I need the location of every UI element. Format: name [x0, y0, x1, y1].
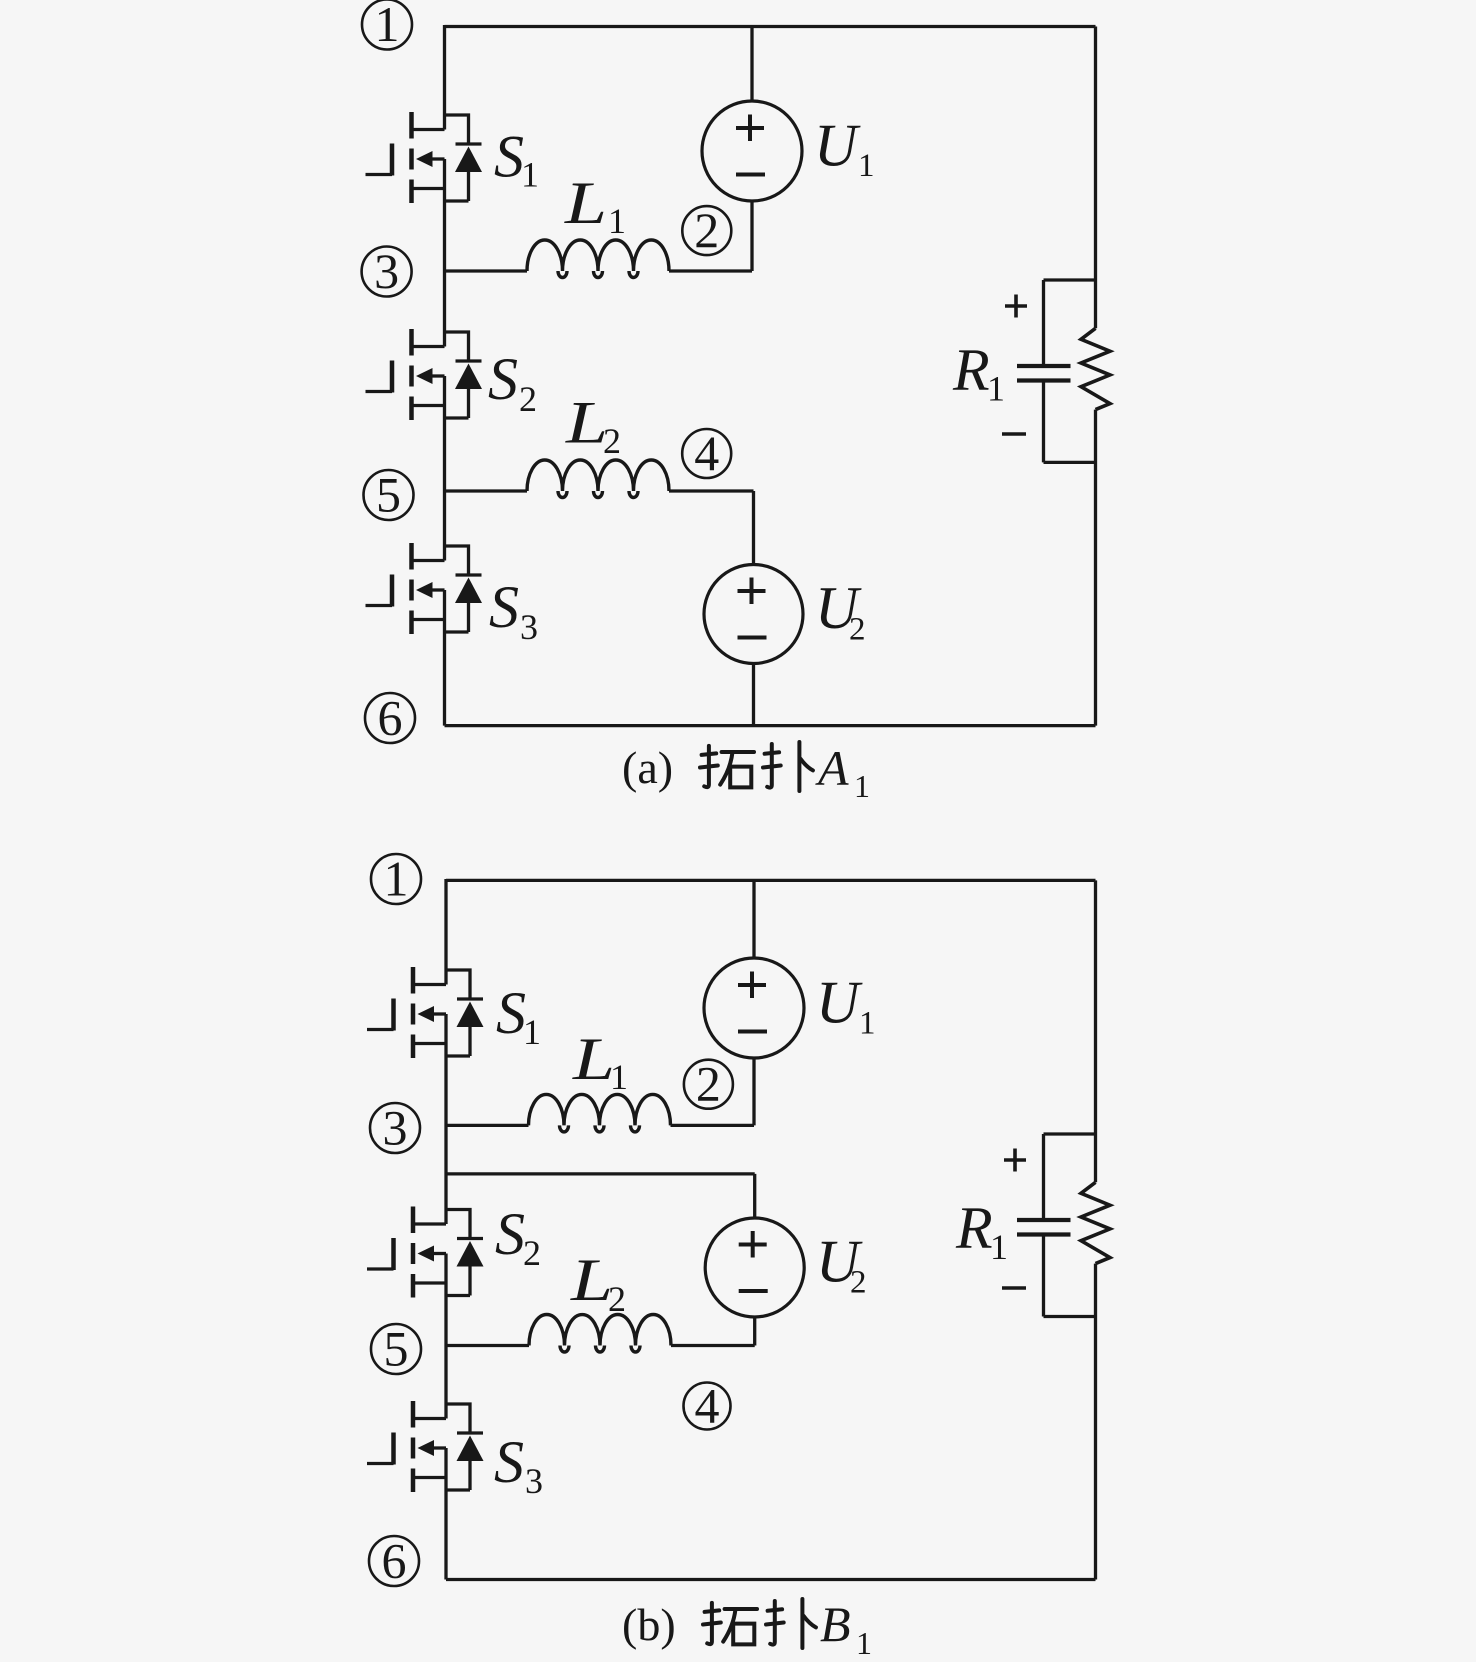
- label S3b: [494, 1429, 543, 1501]
- svg-text:2: 2: [523, 1233, 541, 1273]
- svg-text:6: 6: [378, 690, 403, 746]
- wire right rail upper (b): [1094, 880, 1097, 1182]
- label L1: [564, 170, 626, 241]
- caption (b) glyph 扑: [766, 1599, 816, 1648]
- svg-text:3: 3: [374, 243, 399, 299]
- wire left rail segment S2-S3 (a): [443, 376, 446, 561]
- inductor L2: [527, 460, 669, 498]
- label U1b: [816, 970, 876, 1042]
- svg-text:U: U: [816, 970, 863, 1036]
- polarity + mark: [1005, 295, 1027, 318]
- transistor S3b (N-MOSFET with body diode): [367, 1401, 484, 1492]
- wire left rail segment node1-S1 (b): [444, 879, 447, 985]
- wire right rail lower (b): [1094, 1264, 1097, 1580]
- voltage source U2: [704, 565, 803, 664]
- node 6 (a): [365, 690, 415, 746]
- caption (b) glyph 拓: [703, 1603, 757, 1645]
- svg-text:1: 1: [384, 851, 409, 907]
- wire L1 right lead (b): [671, 1124, 755, 1127]
- label L1b: [572, 1026, 628, 1097]
- label S3: [489, 574, 538, 647]
- inductor L1b: [529, 1094, 671, 1132]
- svg-text:1: 1: [521, 155, 539, 195]
- node 5 (b): [371, 1321, 421, 1377]
- wire left rail segment S3-bottom (b): [444, 1448, 447, 1580]
- svg-text:S: S: [489, 574, 519, 640]
- polarity - mark: [1002, 1286, 1026, 1290]
- node 4 (a): [682, 425, 731, 481]
- wire bottom bus (b): [446, 1578, 1096, 1581]
- wire L2 right lead (a): [669, 491, 754, 565]
- wire U2 branch (b): [446, 1174, 755, 1219]
- transistor S1 (N-MOSFET with body diode): [366, 112, 483, 203]
- svg-text:A: A: [815, 740, 849, 796]
- wire L2 left lead (a): [445, 489, 528, 492]
- svg-text:2: 2: [603, 421, 621, 461]
- wire left rail segment node1-S1 (a): [443, 25, 446, 130]
- svg-text:2: 2: [849, 612, 866, 648]
- svg-text:1: 1: [854, 768, 870, 804]
- voltage source U2b: [705, 1218, 804, 1317]
- svg-text:L: L: [570, 1247, 613, 1313]
- label U2b: [816, 1229, 867, 1301]
- voltage source U1: [702, 101, 802, 201]
- svg-text:S: S: [494, 1429, 524, 1495]
- svg-text:S: S: [495, 1201, 525, 1267]
- label S2b: [495, 1201, 541, 1273]
- wire left rail segment S3-bottom (a): [443, 590, 446, 726]
- node 5 (a): [364, 467, 414, 523]
- node 1 (b): [371, 851, 421, 907]
- svg-text:S: S: [488, 346, 518, 412]
- svg-text:6: 6: [382, 1533, 407, 1589]
- svg-text:B: B: [820, 1596, 851, 1652]
- label L2: [565, 390, 621, 462]
- node 6 (b): [369, 1533, 419, 1589]
- wire left rail segment S1-S2 (b): [444, 1014, 447, 1224]
- svg-text:2: 2: [608, 1279, 626, 1319]
- svg-text:1: 1: [375, 0, 400, 52]
- label S1b: [496, 980, 541, 1052]
- svg-text:S: S: [496, 980, 526, 1046]
- transistor S1b (N-MOSFET with body diode): [367, 967, 484, 1058]
- capacitor (output filter) with leads: [1017, 1134, 1096, 1317]
- svg-text:2: 2: [694, 202, 719, 258]
- wire L2 right lead (b): [671, 1344, 755, 1347]
- caption (a) glyph 扑: [763, 742, 813, 791]
- voltage source U1b: [704, 958, 804, 1058]
- wire U1 top lead (a): [750, 27, 753, 102]
- svg-text:L: L: [572, 1026, 615, 1092]
- label U1: [814, 113, 875, 185]
- svg-text:1: 1: [990, 1227, 1008, 1267]
- node 2 (a): [682, 202, 731, 258]
- inductor L1: [527, 240, 669, 278]
- resistor R1b zigzag: [1081, 1182, 1110, 1263]
- wire U1 bottom lead (a): [750, 201, 753, 271]
- wire L2 left lead (b): [446, 1344, 529, 1347]
- svg-text:S: S: [494, 124, 524, 190]
- wire left rail segment S1-S2 (a): [443, 159, 446, 347]
- polarity - mark: [1002, 432, 1026, 436]
- svg-text:1: 1: [608, 201, 626, 241]
- svg-text:L: L: [565, 390, 608, 456]
- node 2 (b): [684, 1056, 733, 1112]
- transistor S2 (N-MOSFET with body diode): [366, 329, 483, 420]
- wire U1 bottom lead (b): [752, 1058, 755, 1125]
- svg-text:5: 5: [384, 1321, 409, 1377]
- wire right rail lower (a): [1094, 410, 1097, 726]
- svg-text:1: 1: [859, 1006, 876, 1042]
- svg-text:R: R: [952, 337, 990, 403]
- svg-text:1: 1: [523, 1012, 541, 1052]
- wire L1 left lead (b): [446, 1124, 529, 1127]
- svg-text:5: 5: [376, 467, 401, 523]
- svg-text:4: 4: [694, 425, 719, 481]
- svg-text:1: 1: [987, 369, 1005, 409]
- node 4 (b): [684, 1378, 731, 1434]
- svg-text:(b): (b): [622, 1599, 676, 1650]
- wire U2 bottom lead (b): [753, 1317, 756, 1346]
- svg-text:1: 1: [856, 1625, 872, 1661]
- wire L1 left lead (a): [445, 269, 528, 272]
- svg-text:2: 2: [696, 1056, 721, 1112]
- caption (a) glyph 拓: [700, 746, 754, 788]
- svg-text:3: 3: [383, 1100, 408, 1156]
- wire right rail upper (a): [1094, 27, 1097, 329]
- svg-text:2: 2: [850, 1265, 867, 1301]
- node 3 (b): [370, 1100, 420, 1156]
- svg-text:1: 1: [858, 148, 875, 184]
- svg-text:4: 4: [695, 1378, 720, 1434]
- label S1: [494, 124, 539, 195]
- label S2: [488, 346, 537, 419]
- wire U1 top lead (b): [752, 880, 755, 958]
- svg-text:3: 3: [520, 607, 538, 647]
- transistor S3 (N-MOSFET with body diode): [366, 543, 483, 634]
- label U2: [815, 575, 866, 648]
- svg-text:R: R: [955, 1195, 993, 1261]
- wire U2 bottom lead (a): [752, 664, 755, 726]
- svg-text:2: 2: [519, 379, 537, 419]
- label R1: [952, 337, 1005, 409]
- wire top bus (a): [445, 25, 1096, 28]
- node 1 (a): [362, 0, 412, 52]
- wire top bus (b): [446, 879, 1096, 882]
- svg-text:1: 1: [610, 1057, 628, 1097]
- label R1b: [955, 1195, 1008, 1267]
- polarity + mark: [1004, 1149, 1026, 1172]
- capacitor (output filter) with leads: [1017, 280, 1096, 462]
- svg-text:U: U: [814, 113, 861, 179]
- svg-text:3: 3: [525, 1461, 543, 1501]
- transistor S2b (N-MOSFET with body diode): [367, 1207, 484, 1298]
- wire left rail segment S2-S3 (b): [444, 1254, 447, 1419]
- node 3 (a): [362, 243, 412, 299]
- svg-text:(a): (a): [622, 742, 673, 793]
- wire L1 right lead (a): [669, 269, 752, 272]
- resistor R1 zigzag: [1081, 328, 1110, 409]
- label L2b: [570, 1247, 626, 1319]
- inductor L2b: [529, 1315, 671, 1353]
- svg-text:L: L: [564, 170, 607, 236]
- wire bottom bus (a): [445, 724, 1096, 727]
